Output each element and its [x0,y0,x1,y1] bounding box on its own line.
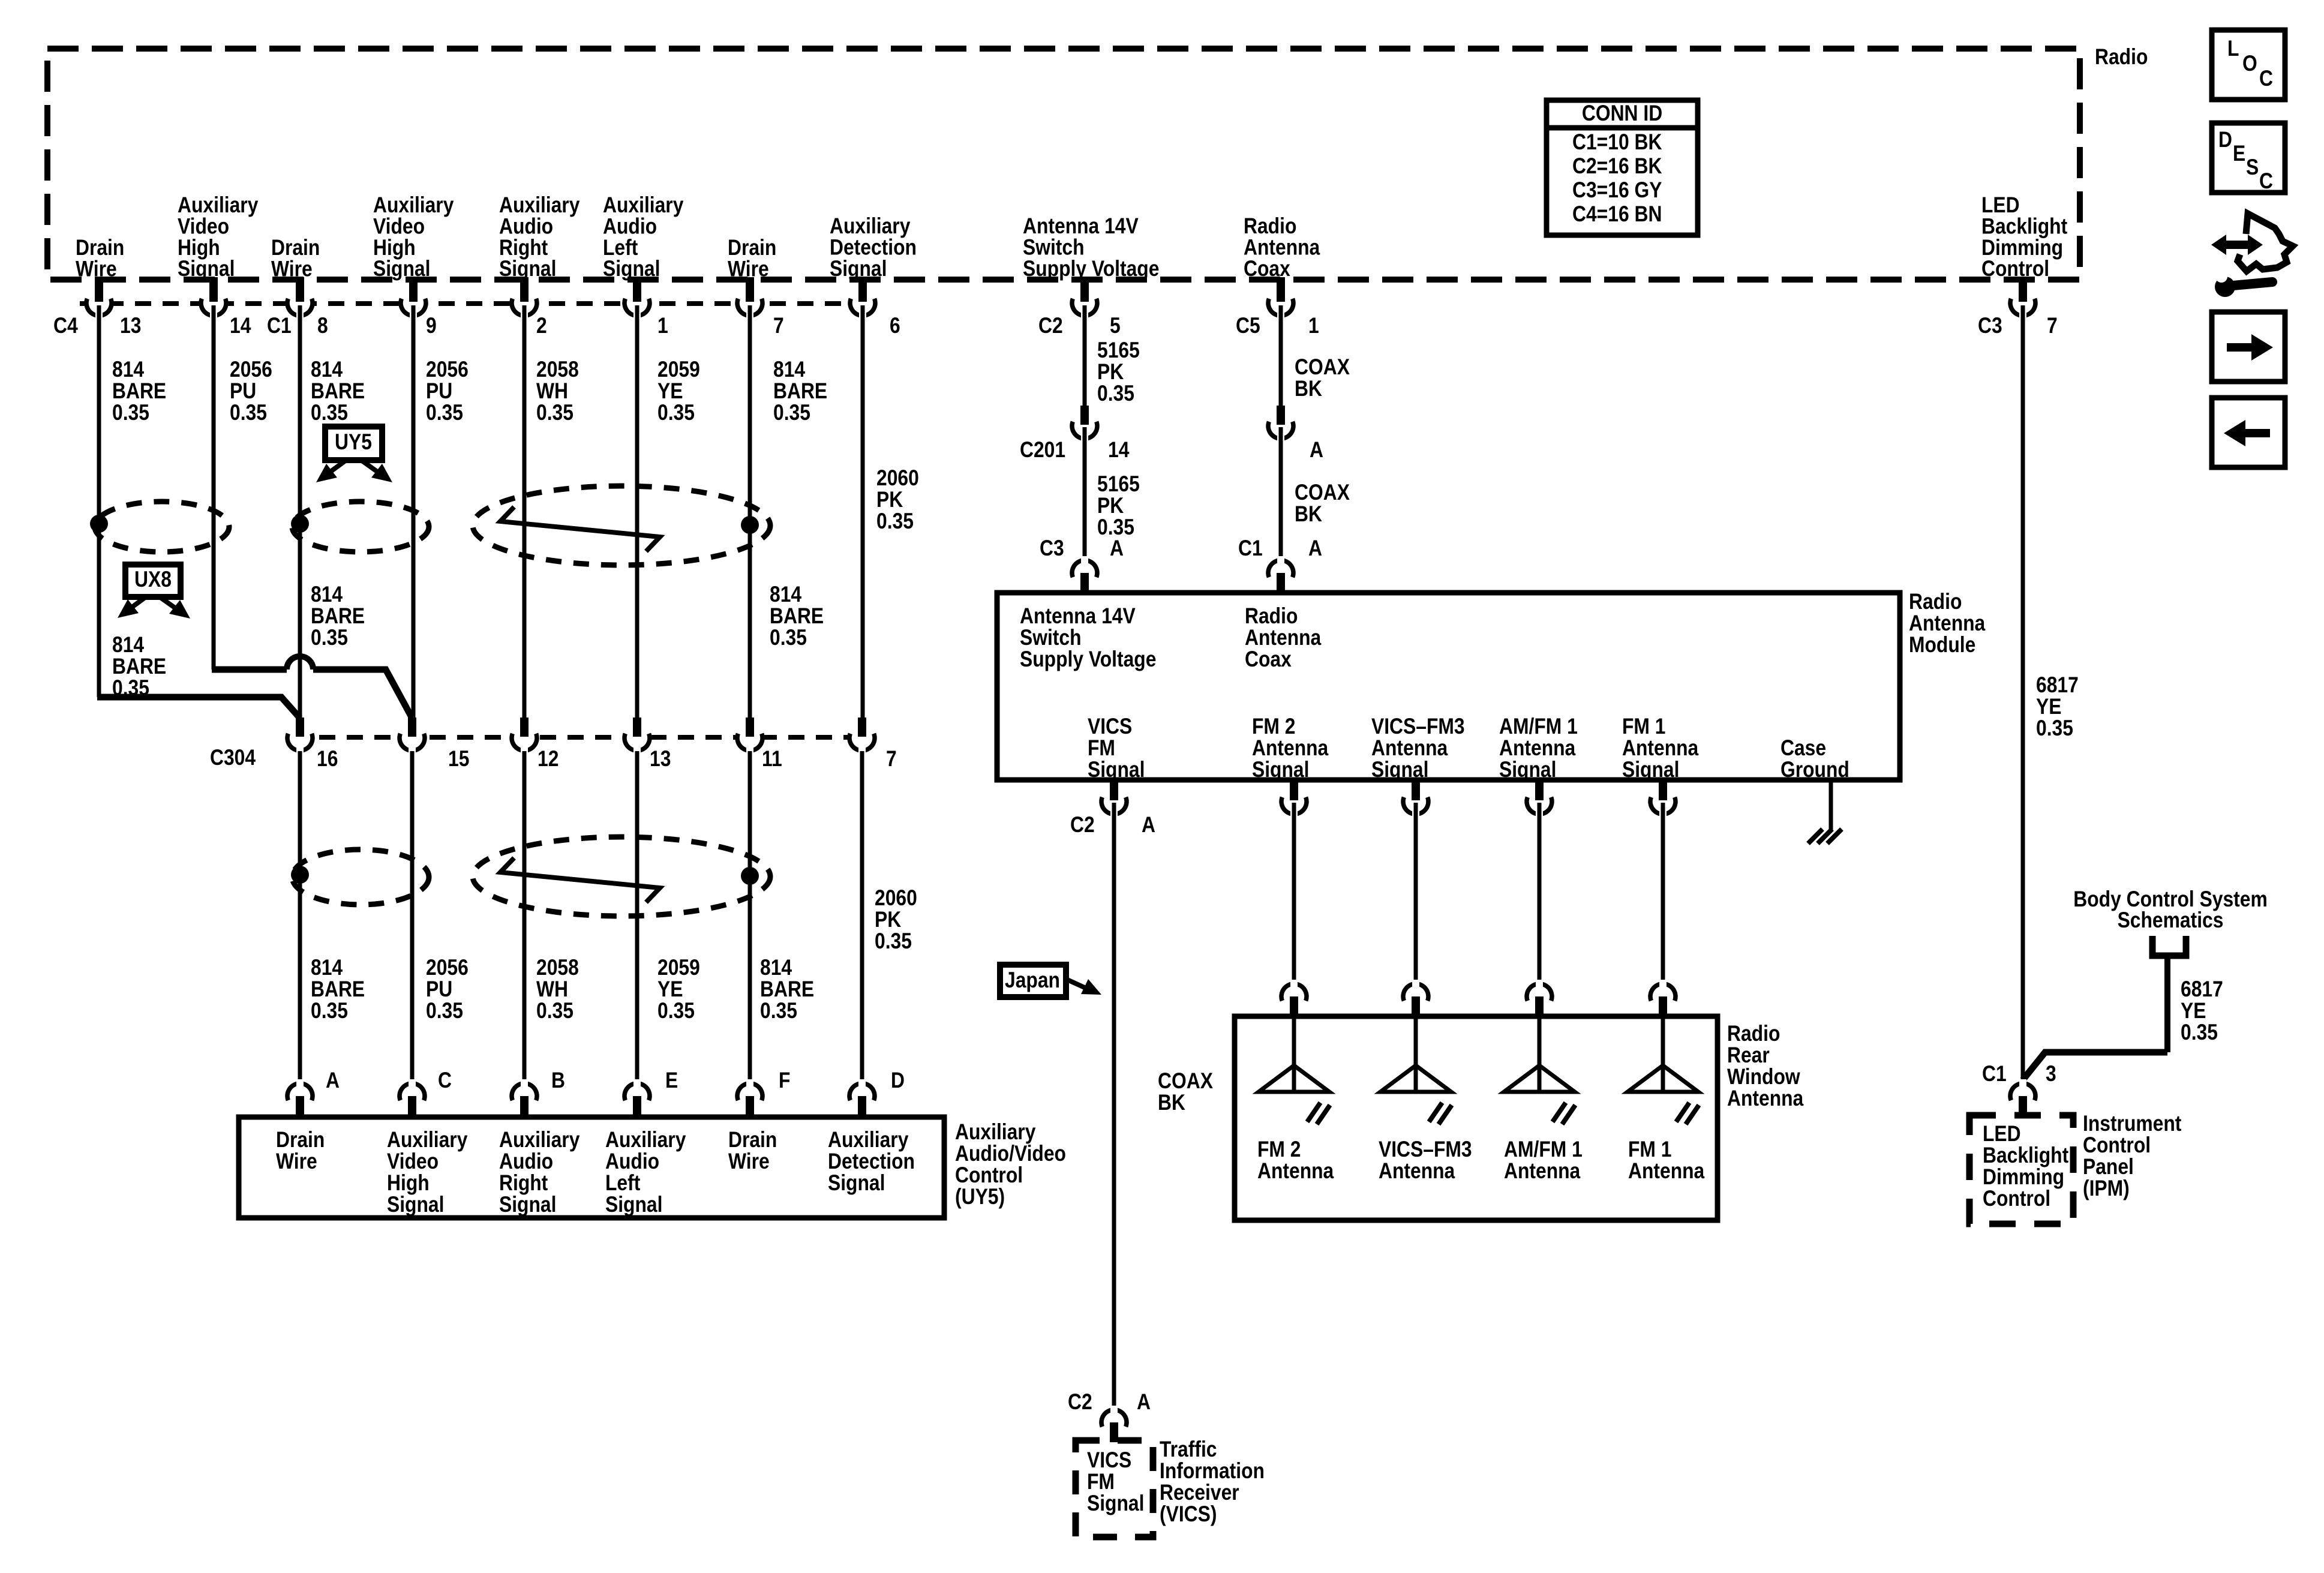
case ground wire [1829,780,1833,831]
svg-text:0.35: 0.35 [112,401,149,425]
svg-text:B: B [551,1068,565,1093]
svg-text:2060: 2060 [876,466,919,491]
module pin AM/FM 1 antenna signal [1527,780,1552,818]
svg-text:16: 16 [317,747,338,772]
svg-text:FM: FM [1087,1470,1115,1494]
svg-text:0.35: 0.35 [536,401,574,425]
svg-text:2059: 2059 [657,956,700,980]
svg-text:2058: 2058 [536,956,579,980]
svg-text:Backlight: Backlight [1983,1143,2069,1168]
svg-text:PU: PU [426,977,452,1002]
svg-text:Receiver: Receiver [1160,1481,1239,1505]
svg-text:7: 7 [2047,314,2058,338]
svg-text:8: 8 [317,314,328,338]
svg-text:A: A [1310,438,1323,463]
svg-text:Radio: Radio [2095,45,2148,70]
svg-text:Audio: Audio [499,1149,553,1174]
svg-text:814: 814 [773,358,805,382]
svg-text:BK: BK [1295,502,1322,527]
svg-text:(VICS): (VICS) [1160,1502,1217,1527]
aux video high wire 2056 from pin 9 [412,305,416,718]
svg-text:Signal: Signal [178,257,235,281]
svg-text:Auxiliary: Auxiliary [499,1128,580,1152]
svg-text:1: 1 [657,314,668,338]
svg-text:0.35: 0.35 [770,626,807,650]
twisted pair symbol [500,507,660,551]
svg-text:0.35: 0.35 [230,401,267,425]
aux detection wire 2060 from pin 6 [861,305,865,718]
connector C4/C1 dashed face line [80,301,878,306]
antenna element FM 2 [1257,1019,1334,1184]
svg-text:PK: PK [1097,360,1124,385]
svg-text:Signal: Signal [605,1193,662,1217]
antenna element FM 1 [1628,1019,1705,1184]
wire value labels row2 [311,886,917,1023]
shield ellipse row2 around drain/video [292,849,429,905]
svg-text:Supply Voltage: Supply Voltage [1023,257,1159,281]
drain C4-13 routed to C304 pin 16 [97,697,300,718]
svg-text:0.35: 0.35 [311,999,348,1023]
radio connector pin 8 [267,277,328,338]
svg-text:CONN ID: CONN ID [1582,101,1662,126]
svg-text:YE: YE [2181,999,2206,1023]
twisted pair symbol row2 [500,858,660,902]
svg-text:Antenna: Antenna [1379,1159,1455,1184]
svg-text:13: 13 [120,314,141,338]
svg-text:Panel: Panel [2083,1155,2134,1179]
svg-text:0.35: 0.35 [876,509,914,534]
svg-text:Control: Control [1981,257,2049,281]
module pin VICS-FM3 antenna signal [1403,780,1428,818]
svg-text:Radio: Radio [1727,1022,1780,1046]
drain wire 814 from C4-13 [97,305,101,697]
LED Backlight Dimming Control dashed box [1969,1115,2073,1224]
svg-text:C3: C3 [1040,536,1064,561]
connector C304 pin 15 [400,718,469,772]
svg-text:BARE: BARE [311,604,365,629]
svg-text:BARE: BARE [760,977,814,1002]
svg-text:C: C [2259,67,2273,91]
mid drain labels [112,583,824,701]
module pin C3-A [1040,536,1124,595]
radio antenna coax upper [1279,305,1283,406]
svg-text:11: 11 [762,747,782,772]
drain wire below C304 [298,751,302,1083]
svg-text:VICS: VICS [1088,715,1132,739]
rear window antenna pin [1527,980,1552,1019]
aux control box name label [955,1120,1066,1209]
aux control pin F [737,1068,790,1118]
svg-text:814: 814 [311,956,343,980]
Body Control System Schematics reference [2073,887,2267,956]
svg-text:Antenna: Antenna [1727,1086,1804,1111]
svg-text:High: High [387,1171,430,1196]
svg-text:Control: Control [1983,1187,2050,1211]
shield ellipse around drain C1-8 and video pair [292,502,429,552]
audio left wire below C304 [635,751,639,1083]
svg-text:YE: YE [2036,695,2061,719]
svg-text:A: A [1308,536,1322,561]
svg-text:0.35: 0.35 [657,999,695,1023]
radio connector pin 1 [624,277,668,338]
svg-text:Signal: Signal [1087,1491,1144,1516]
shield ellipse row2 audio twisted pair [473,837,770,916]
option flag UY5 [316,427,392,482]
svg-text:0.35: 0.35 [875,929,912,954]
rear window antenna pin [1650,980,1676,1019]
svg-text:6817: 6817 [2036,673,2079,698]
svg-text:2060: 2060 [875,886,917,911]
svg-text:6: 6 [890,314,900,338]
svg-text:0.35: 0.35 [426,401,463,425]
svg-text:VICS–FM3: VICS–FM3 [1371,715,1465,739]
DESC icon [2212,123,2285,194]
svg-text:0.35: 0.35 [426,999,463,1023]
svg-text:BARE: BARE [773,379,827,404]
in-line connector C304 dashed face [292,735,864,740]
svg-text:Signal: Signal [603,257,660,281]
svg-text:Signal: Signal [373,257,430,281]
Radio Antenna Module box [997,593,1900,782]
LED backlight dimming wire 6817 [2021,305,2025,1080]
option flag UX8 [118,565,190,619]
svg-text:Antenna: Antenna [1909,611,1986,636]
junction dot on drain wire pin 7 [741,516,759,534]
svg-text:COAX: COAX [1295,355,1350,380]
svg-text:Wire: Wire [276,1149,317,1174]
svg-text:Signal: Signal [1622,758,1679,782]
svg-text:BARE: BARE [770,604,824,629]
svg-text:C3=16 GY: C3=16 GY [1572,178,1662,203]
svg-text:Signal: Signal [828,1171,885,1196]
svg-text:1: 1 [1308,314,1319,338]
option flag Japan [1000,965,1101,997]
svg-text:BARE: BARE [112,379,166,404]
chassis ground symbol [1808,829,1842,843]
instrument control panel label [2083,1112,2182,1201]
svg-text:C5: C5 [1236,314,1260,338]
radio connector pin 14 [201,277,251,338]
svg-text:5165: 5165 [1097,338,1140,363]
svg-text:0.35: 0.35 [657,401,695,425]
svg-text:BK: BK [1295,377,1322,401]
svg-text:C2: C2 [1070,813,1095,837]
radio antenna coax lower [1279,427,1283,568]
svg-text:AM/FM 1: AM/FM 1 [1504,1137,1583,1162]
svg-text:Detection: Detection [828,1149,915,1174]
in-line connector pin A coax [1268,406,1323,463]
wrench and arrows icon [2211,214,2293,297]
svg-text:Signal: Signal [499,1193,556,1217]
svg-text:Antenna: Antenna [1499,736,1576,761]
svg-text:Traffic: Traffic [1160,1437,1217,1462]
svg-text:15: 15 [448,747,469,772]
antenna wire [1661,803,1665,984]
VICS FM Signal dashed box [1076,1440,1153,1537]
svg-text:FM 2: FM 2 [1252,715,1295,739]
svg-text:0.35: 0.35 [311,626,348,650]
svg-text:LED: LED [1983,1122,2021,1146]
svg-text:E: E [665,1068,678,1093]
svg-text:5: 5 [1110,314,1121,338]
traffic information receiver label [1160,1437,1265,1527]
svg-text:FM 1: FM 1 [1622,715,1665,739]
video wire 14 routed to C304 pin 15 with hop [212,656,412,718]
svg-text:D: D [891,1068,905,1093]
svg-text:(UY5): (UY5) [955,1185,1005,1209]
wire 6817 from body control [2023,956,2167,1080]
right arrow icon [2212,312,2285,382]
svg-text:Antenna 14V: Antenna 14V [1020,604,1136,629]
svg-text:FM 1: FM 1 [1628,1137,1671,1162]
svg-text:BARE: BARE [311,379,365,404]
svg-text:9: 9 [426,314,437,338]
svg-text:D: D [2218,128,2232,152]
svg-text:FM: FM [1088,736,1115,761]
connector C304 pin 11 [737,718,782,772]
svg-text:Signal: Signal [1088,758,1145,782]
Radio Rear Window Antenna box [1235,1016,1718,1220]
drain wire below C304 [748,751,752,1083]
svg-text:2056: 2056 [426,956,469,980]
svg-text:C2: C2 [1068,1390,1092,1415]
junction dot on drain wire C1-8 [291,515,309,533]
svg-text:814: 814 [112,358,144,382]
svg-text:C: C [438,1068,452,1093]
audio right wire below C304 [523,751,527,1083]
svg-text:Auxiliary: Auxiliary [605,1128,686,1152]
radio pin function labels [76,193,2068,281]
svg-text:Antenna: Antenna [1252,736,1329,761]
svg-text:7: 7 [773,314,784,338]
svg-text:Drain: Drain [728,1128,777,1152]
svg-text:Window: Window [1727,1065,1800,1089]
in-line connector C201 pin 14 [1020,406,1129,463]
module name label [1909,590,1986,658]
svg-text:0.35: 0.35 [536,999,574,1023]
svg-text:Radio: Radio [1245,604,1298,629]
svg-text:L: L [2227,37,2239,61]
svg-text:12: 12 [538,747,559,772]
svg-text:Instrument: Instrument [2083,1112,2182,1136]
svg-text:Schematics: Schematics [2118,908,2224,933]
svg-text:C304: C304 [210,746,256,770]
svg-text:14: 14 [1108,438,1129,463]
aux control pin D [849,1068,905,1118]
svg-text:FM 2: FM 2 [1257,1137,1301,1162]
rear window antenna name label [1727,1022,1804,1111]
svg-text:Module: Module [1909,633,1975,658]
svg-text:3: 3 [2046,1062,2056,1086]
svg-text:PU: PU [426,379,452,404]
svg-text:Information: Information [1160,1459,1265,1484]
aux control pin E [624,1068,678,1118]
svg-text:BK: BK [1158,1091,1185,1115]
svg-text:814: 814 [311,583,343,607]
svg-text:PK: PK [876,488,903,512]
antenna wire [1292,803,1296,984]
svg-text:Right: Right [499,1171,548,1196]
antenna 14V supply wire 5165 upper [1083,305,1087,406]
aux control pin B [512,1068,565,1118]
svg-text:C3: C3 [1978,314,2002,338]
Radio component dashed box [47,45,2148,280]
svg-text:Auxiliary: Auxiliary [387,1128,467,1152]
svg-text:VICS: VICS [1087,1448,1131,1473]
svg-text:YE: YE [657,977,683,1002]
VICS FM signal coax wire [1112,803,1116,1417]
svg-text:Wire: Wire [728,1149,770,1174]
svg-text:UX8: UX8 [134,568,172,592]
shield ellipse around audio twisted pair [473,486,770,565]
svg-text:0.35: 0.35 [2181,1020,2218,1045]
radio connector pin 5 [1038,277,1121,338]
svg-text:C: C [2259,169,2273,194]
svg-text:814: 814 [112,633,144,658]
svg-text:C4: C4 [53,314,78,338]
svg-text:A: A [326,1068,340,1093]
svg-text:5165: 5165 [1097,472,1140,497]
svg-text:Rear: Rear [1727,1043,1770,1068]
svg-text:Wire: Wire [271,257,313,281]
svg-text:A: A [1142,813,1155,837]
connector C304 pin 16 [287,718,338,772]
svg-text:A: A [1110,536,1124,561]
svg-text:PU: PU [230,379,256,404]
svg-text:Signal: Signal [1499,758,1556,782]
svg-text:0.35: 0.35 [1097,382,1134,406]
drain wire 814 from C1-8 [298,305,302,718]
antenna wire [1538,803,1542,984]
svg-text:13: 13 [650,747,671,772]
svg-text:2059: 2059 [657,358,700,382]
antenna wire [1414,803,1418,984]
svg-text:Video: Video [387,1149,439,1174]
svg-text:0.35: 0.35 [760,999,797,1023]
svg-text:Radio: Radio [1909,590,1962,614]
svg-text:0.35: 0.35 [311,401,348,425]
radio connector pin 1 [1236,277,1319,338]
aux audio right wire 2058 from pin 2 [523,305,527,718]
svg-text:Audio: Audio [605,1149,659,1174]
svg-text:Control: Control [955,1163,1023,1188]
radio connector pin 7 [737,277,784,338]
svg-text:Antenna: Antenna [1622,736,1699,761]
radio connector pin 7 [1978,277,2058,338]
svg-text:C1=10 BK: C1=10 BK [1572,130,1662,155]
aux control pin A [287,1068,340,1118]
rear window antenna pin [1403,980,1428,1019]
detection wire below C304 [860,751,864,1083]
VICS receiver pin C2-A [1068,1390,1151,1442]
module pin FM 1 antenna signal [1650,780,1676,818]
svg-text:Signal: Signal [387,1193,444,1217]
radio connector pin 6 [850,277,900,338]
svg-text:YE: YE [657,379,683,404]
svg-text:C4=16 BN: C4=16 BN [1572,202,1662,227]
svg-text:6817: 6817 [2181,977,2223,1002]
svg-text:0.35: 0.35 [773,401,810,425]
left arrow icon [2212,398,2285,467]
svg-text:WH: WH [536,379,568,404]
svg-text:VICS–FM3: VICS–FM3 [1379,1137,1472,1162]
video high wire below C304 [410,751,415,1083]
shield ellipse around drain C4-13 and video pair [95,502,229,552]
drain wire 814 from pin 7 [748,305,752,718]
svg-text:814: 814 [760,956,792,980]
svg-text:C2=16 BK: C2=16 BK [1572,154,1662,179]
svg-text:Signal: Signal [1252,758,1309,782]
svg-text:2056: 2056 [426,358,469,382]
svg-text:F: F [779,1068,790,1093]
svg-text:AM/FM 1: AM/FM 1 [1499,715,1578,739]
svg-text:Signal: Signal [1371,758,1428,782]
rear window antenna pin [1281,980,1307,1019]
IPM pin C1-3 [1982,1062,2056,1118]
svg-text:BARE: BARE [112,655,166,679]
aux control pin C [400,1068,452,1118]
svg-text:Signal: Signal [830,257,887,281]
svg-text:Supply Voltage: Supply Voltage [1020,647,1156,672]
CONN ID table [1547,100,1698,235]
junction dot row2 drain A [291,866,309,884]
svg-text:S: S [2246,155,2259,180]
connector C304 pin 7 [849,718,897,772]
aux video high wire 2056 from pin 14 [212,305,216,670]
connector C304 label [210,746,256,770]
svg-text:C201: C201 [1020,438,1065,463]
antenna element VICS–FM3 [1379,1019,1472,1184]
wire value labels top row [112,358,919,534]
svg-text:Japan: Japan [1005,968,1060,993]
svg-text:814: 814 [770,583,801,607]
svg-text:Coax: Coax [1245,647,1292,672]
radio connector pin 13 [53,277,141,338]
svg-text:COAX: COAX [1295,481,1350,505]
module pin C2-A VICS FM signal [1070,780,1155,837]
svg-text:PK: PK [1097,494,1124,518]
LOC icon [2212,30,2285,100]
svg-text:O: O [2242,52,2257,76]
aux audio left wire 2059 from pin 1 [635,305,639,718]
svg-text:WH: WH [536,977,568,1002]
svg-text:2: 2 [536,314,547,338]
svg-text:Antenna: Antenna [1257,1159,1334,1184]
svg-text:7: 7 [886,747,897,772]
svg-text:Antenna: Antenna [1504,1159,1581,1184]
svg-text:Ground: Ground [1780,758,1849,782]
connector C304 pin 13 [624,718,671,772]
module pin FM 2 antenna signal [1281,780,1307,818]
svg-text:14: 14 [230,314,251,338]
svg-text:Dimming: Dimming [1983,1165,2064,1190]
Auxiliary Audio/Video Control box [239,1117,944,1218]
module pin C1-A [1238,536,1322,595]
svg-text:COAX: COAX [1158,1069,1213,1094]
junction dot row2 drain F [741,867,759,885]
svg-text:Antenna: Antenna [1628,1159,1705,1184]
svg-text:C1: C1 [267,314,292,338]
antenna element AM/FM 1 [1504,1019,1583,1184]
svg-text:Control: Control [2083,1133,2151,1158]
junction dot on drain wire C4-13 [90,515,108,533]
svg-text:Left: Left [605,1171,641,1196]
svg-text:Switch: Switch [1020,626,1082,650]
svg-text:0.35: 0.35 [2036,716,2073,741]
radio connector pin 2 [512,277,547,338]
svg-text:Antenna: Antenna [1245,626,1322,650]
svg-text:C1: C1 [1238,536,1263,561]
